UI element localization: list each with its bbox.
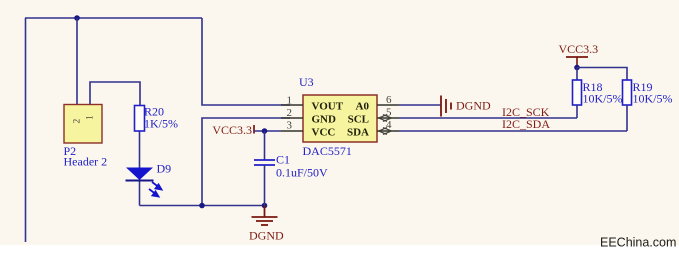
svg-text:3: 3 xyxy=(287,120,293,132)
wire: I2C_SDA net xyxy=(399,130,627,132)
svg-text:0.1uF/50V: 0.1uF/50V xyxy=(276,166,328,180)
wire: I2C_SCK net xyxy=(399,117,577,119)
LED light arrows xyxy=(149,182,162,197)
junction: C1 tap on pin 3 wire xyxy=(262,128,268,134)
svg-text:VOUT: VOUT xyxy=(312,101,344,113)
resistor R19 xyxy=(623,80,632,105)
svg-text:6: 6 xyxy=(386,94,392,106)
svg-text:A0: A0 xyxy=(356,101,370,113)
wire: R19 to I2C_SDA xyxy=(626,105,628,131)
svg-text:D9: D9 xyxy=(157,162,172,176)
wire: R18 to I2C_SCK xyxy=(576,105,578,118)
wire: VOUT run down to U3 pin 1 xyxy=(202,18,290,105)
wire: P2 pin 2 drop xyxy=(76,18,78,105)
pin 5 stub xyxy=(377,117,399,119)
svg-text:EEChina.com: EEChina.com xyxy=(600,236,676,250)
LED D9 xyxy=(126,168,153,181)
svg-text:C1: C1 xyxy=(276,153,290,167)
svg-text:1K/5%: 1K/5% xyxy=(144,117,178,131)
junction: GND drop on rail xyxy=(199,203,205,209)
capacitor C1 xyxy=(264,131,266,160)
pin 4 stub xyxy=(377,130,399,132)
svg-text:U3: U3 xyxy=(299,75,314,89)
power port VCC3.3 top right xyxy=(566,56,588,58)
pin 6 stub xyxy=(377,104,399,106)
ground DGND at pin 6 (rotated) xyxy=(441,96,451,117)
svg-text:Header 2: Header 2 xyxy=(64,155,108,169)
svg-text:1: 1 xyxy=(86,115,96,120)
svg-text:DAC5571: DAC5571 xyxy=(303,144,352,158)
svg-text:DGND: DGND xyxy=(249,229,284,243)
connector P2 xyxy=(64,105,102,144)
svg-text:10K/5%: 10K/5% xyxy=(633,92,673,106)
svg-text:SDA: SDA xyxy=(347,127,369,139)
svg-text:I2C_SDA: I2C_SDA xyxy=(502,117,550,131)
svg-text:GND: GND xyxy=(312,114,337,126)
svg-text:VCC3.3: VCC3.3 xyxy=(559,42,599,56)
svg-text:10K/5%: 10K/5% xyxy=(583,92,623,106)
junction: P2 pin2 on top bus xyxy=(74,15,80,21)
wire: R20 to LED anode xyxy=(139,131,141,168)
svg-text:2: 2 xyxy=(73,119,83,124)
svg-text:1: 1 xyxy=(287,95,293,107)
svg-text:VCC: VCC xyxy=(312,127,336,139)
svg-text:VCC3.3: VCC3.3 xyxy=(212,123,252,137)
IC U3 DAC5571 body xyxy=(303,95,377,142)
svg-text:SCL: SCL xyxy=(348,114,369,126)
bidirectional arrow pin 5 xyxy=(379,115,392,122)
wire: P2 pin 1 to R20 xyxy=(90,82,140,106)
wire: LED cathode to rail xyxy=(139,180,141,206)
junction: C1/DGND on rail xyxy=(262,203,268,209)
junction: VCC node xyxy=(574,65,580,71)
pin 3 stub xyxy=(281,130,303,132)
wire: left vertical bus xyxy=(25,18,27,242)
svg-text:2: 2 xyxy=(287,107,293,119)
ground DGND under C1 xyxy=(252,206,278,226)
wire: ground rail xyxy=(140,205,265,207)
pin 2 stub xyxy=(281,117,303,119)
wire: VCC node to R19 xyxy=(577,68,627,81)
wire: pin 6 to DGND xyxy=(399,104,441,106)
bidirectional arrow pin 4 xyxy=(379,128,392,135)
wire: VCC node to R18 xyxy=(576,68,578,81)
power port VCC3.3 at U3 pin 3 xyxy=(253,125,255,134)
wire: U3 pin 2 GND drop to ground rail xyxy=(202,118,290,206)
svg-text:DGND: DGND xyxy=(456,99,491,113)
resistor R20 xyxy=(135,106,145,132)
wire: top horizontal VOUT bus xyxy=(25,17,202,19)
pin 1 stub xyxy=(281,104,303,106)
resistor R18 xyxy=(573,80,582,105)
